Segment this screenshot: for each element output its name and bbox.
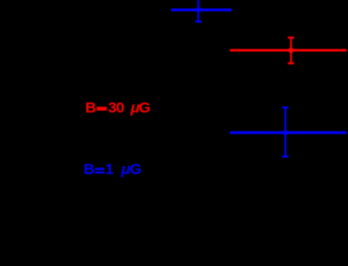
svg-text:G: G [139,99,151,116]
data point 3: lower blue point (B=1 uG) [230,108,347,157]
marker [288,48,293,53]
label B=30 uG (red) [85,99,150,116]
svg-text:1: 1 [105,161,114,178]
lower cap [282,156,288,158]
horizontal error bar [230,49,347,52]
horizontal error bar [230,131,347,134]
upper cap [282,106,288,108]
horizontal error bar [171,9,232,12]
svg-text:B: B [85,99,96,116]
vertical error bar [284,108,286,157]
svg-text:G: G [130,161,142,178]
lower cap [288,62,294,64]
lower cap [195,21,201,23]
upper cap [288,37,294,39]
data point 2: red point (B=30 uG) [230,38,347,64]
label B=1 uG (blue) [84,161,142,178]
data point 1: upper blue point (B=1 uG) [171,0,232,22]
marker [283,130,288,135]
svg-text:0: 0 [116,99,124,116]
svg-text:B: B [84,161,95,178]
vertical error bar (cut off at top) [197,0,199,22]
marker [196,7,201,12]
vertical error bar [290,38,292,64]
